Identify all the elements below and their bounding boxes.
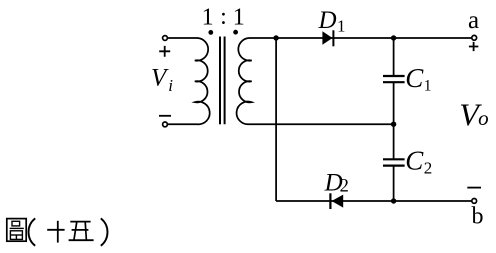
svg-text:b: b bbox=[472, 203, 484, 229]
svg-text:a: a bbox=[468, 7, 479, 34]
svg-text:C: C bbox=[405, 63, 424, 93]
svg-text:1: 1 bbox=[233, 5, 245, 31]
svg-text:2: 2 bbox=[340, 177, 349, 197]
svg-text:1: 1 bbox=[337, 17, 346, 36]
svg-text:2: 2 bbox=[424, 159, 433, 178]
svg-text:1: 1 bbox=[424, 78, 432, 95]
svg-text:o: o bbox=[478, 106, 489, 130]
svg-text:D: D bbox=[318, 7, 337, 34]
svg-text::: : bbox=[220, 4, 227, 30]
svg-text:1: 1 bbox=[202, 5, 214, 31]
svg-text:V: V bbox=[151, 64, 169, 91]
svg-text:C: C bbox=[405, 146, 424, 176]
svg-text:i: i bbox=[168, 76, 173, 95]
